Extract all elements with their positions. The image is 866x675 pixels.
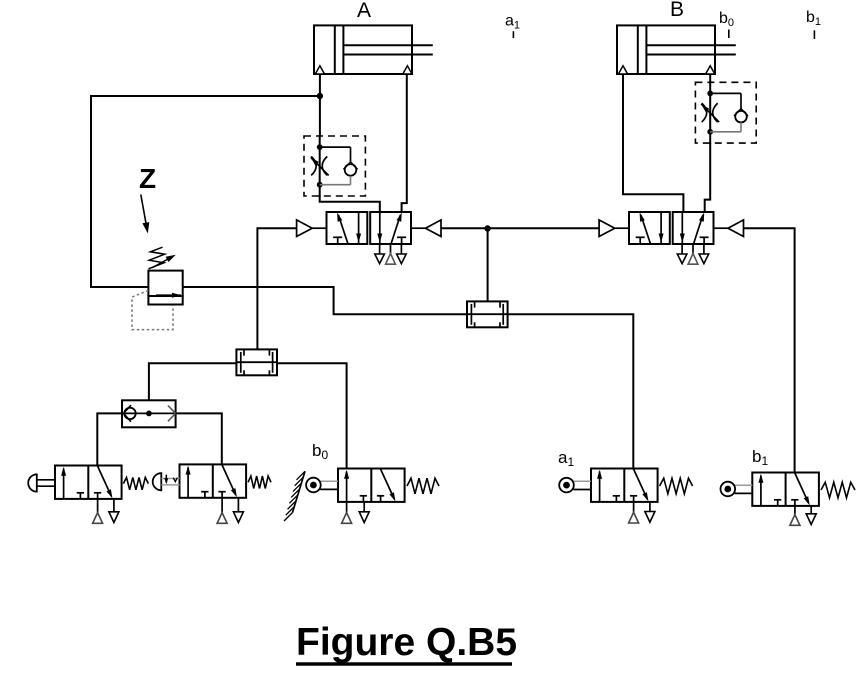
pilot left V1 [297,220,327,237]
arrow from Z to valve [141,195,150,234]
roller b0 [306,478,338,493]
wire V1 left pilot to S2 [257,228,296,349]
check valve block [122,400,176,427]
wire cyl A left port down [319,74,321,136]
spring M2 [248,476,271,488]
sequence valve Z body [148,271,182,305]
flow control valve B [695,81,756,144]
tick under b1 [813,30,815,39]
wire flowB out to valve [705,143,711,212]
wire check box right to M2 [176,413,222,464]
wire cyl B left port to valve [623,74,683,212]
cylinder B [617,25,736,74]
svg-text:Figure Q.B5: Figure Q.B5 [296,621,517,664]
spring b1 [821,482,855,498]
3/2 valve a1 [591,469,658,524]
wire flowA out to valve [320,196,380,212]
exhausts V2 [677,244,708,264]
tick under b0 [728,30,730,39]
wire S1 to a1 valve [508,314,634,468]
sequence valve Z pilot dashed line [132,291,173,330]
wire junction A to left rail [91,96,320,287]
wire Z out to shuttle S1 [183,287,467,314]
3/2 valve b1 [752,473,819,526]
caption underline [296,662,512,665]
5/2 valve V2 (cylinder B) [629,212,714,244]
roller a1 [559,478,591,493]
shuttle valve S2 [236,349,277,375]
wire S2 left to check box [149,363,237,400]
wire V2 right pilot to b1 [744,228,795,472]
wire check box left to M1 [97,413,122,465]
5/2 valve V1 (cylinder A) [327,212,412,244]
node cyl A port junction [317,93,323,99]
roller b1 [721,482,753,497]
spring b0 [407,478,439,494]
shuttle valve S1 [467,301,508,327]
spring M1 [123,477,148,489]
push button M2 [153,473,180,490]
svg-text:Z: Z [139,163,156,194]
push button M1 [28,474,55,491]
flow control valve A [304,135,365,197]
tick under a1 [512,31,514,38]
cylinder A [314,25,433,74]
svg-text:A: A [357,0,371,22]
wire pilot rail V1-V2 [441,227,599,229]
exhausts V1 [375,244,406,264]
wire S1 top to pilot rail [487,229,489,302]
pilot right V2 [714,220,744,237]
pilot left V2 [599,220,629,237]
wire cyl B right port down [709,74,711,82]
pilot right V1 [411,220,441,237]
svg-text:B: B [670,0,684,21]
wire cyl A right port to valve [402,74,407,212]
wire S2 right to b0 [277,363,347,468]
3/2 valve M1 (manual) [55,466,122,524]
node pilot rail junction [484,225,490,231]
3/2 valve b0 [338,469,405,524]
spring a1 [660,478,693,494]
sequence valve Z spring [149,247,176,269]
wall b0 [284,471,305,521]
3/2 valve M2 (manual) [180,464,247,523]
